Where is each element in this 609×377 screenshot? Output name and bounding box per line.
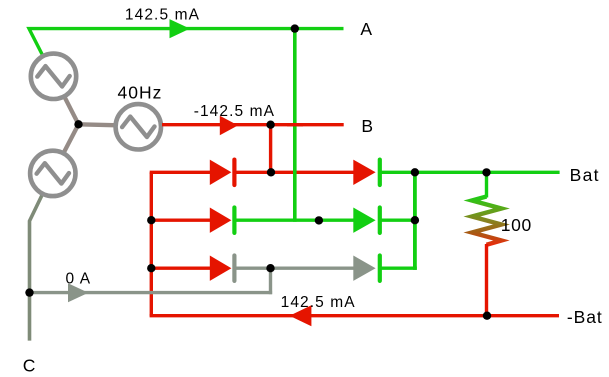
wire row1 anode segment (red) xyxy=(150,171,211,174)
svg-text:142.5 mA: 142.5 mA xyxy=(281,294,356,311)
junction left bus row2 xyxy=(147,216,155,224)
diode D6 right row3 (sage triangle, green bar) xyxy=(353,256,375,281)
diode D1 left row1 (red triangle, red bar) xyxy=(210,160,232,185)
wire row3 anode segment (red) xyxy=(151,267,210,270)
junction neutral of wye xyxy=(74,120,82,128)
ac source V2 (phase B, 40Hz) xyxy=(116,104,161,149)
svg-text:B: B xyxy=(361,116,373,136)
svg-text:-142.5 mA: -142.5 mA xyxy=(194,103,275,120)
current arrow phase A 142.5 mA (green) xyxy=(170,19,190,38)
wire row3 branch vertical to phase C bus (sage) xyxy=(269,268,272,294)
wire row3 mid segment (sage) xyxy=(234,267,353,270)
wire B branch vertical (red) xyxy=(269,125,272,173)
diode D3 left row3 (red triangle, sage bar) xyxy=(210,256,232,281)
wire row2 cathode to + bus (green) xyxy=(380,218,417,221)
junction left bus row3 xyxy=(147,264,155,272)
ac source V3 (phase C) xyxy=(30,151,75,196)
wire + bus vertical (green) xyxy=(413,172,417,270)
wire phase B (red) from V2 to node B xyxy=(162,123,344,126)
wire source V3 lead to node C + C vertical wire (sage) xyxy=(30,191,45,341)
ac source V1 (phase A) xyxy=(31,54,76,99)
svg-text:0 A: 0 A xyxy=(66,271,92,288)
wire left negative bus vertical (red) xyxy=(150,172,153,315)
diode D4 right row1 (red triangle, green bar) xyxy=(353,160,375,185)
current arrow return 142.5 mA (red, pointing left) xyxy=(290,305,312,326)
wire row3 cathode to + bus (green) xyxy=(380,267,417,270)
wire row2 anode segment (red) xyxy=(151,218,211,221)
junction row3 mid xyxy=(266,264,274,272)
junction node C branch xyxy=(25,288,33,296)
wire A branch vertical (green) xyxy=(293,29,297,222)
wire phase C horizontal 0A (sage) xyxy=(30,291,273,294)
wire phase B overdraw at crossing (red on top) xyxy=(287,123,303,126)
junction row2 mid xyxy=(315,216,323,224)
junction node A branch xyxy=(291,24,299,32)
svg-text:-Bat: -Bat xyxy=(567,307,603,327)
junction resistor top xyxy=(482,168,490,176)
wire -Bat bottom (red) xyxy=(151,314,559,316)
wire row1 cathode to + bus (green) xyxy=(380,171,560,174)
wire phase A top (green) xyxy=(29,29,344,60)
resistor R1 100 ohm (gradient zigzag) xyxy=(485,172,488,197)
wire source V1 lead to neutral (taupe) xyxy=(62,92,79,124)
svg-text:40Hz: 40Hz xyxy=(118,82,163,102)
junction row1 mid xyxy=(267,168,275,176)
wire row2 mid segment (green) xyxy=(234,218,353,221)
svg-text:C: C xyxy=(23,356,36,376)
wire row1 mid segment (red) xyxy=(234,171,353,174)
wire source V2 lead to neutral (taupe) xyxy=(79,124,119,125)
wire source V3 lead to neutral (taupe) xyxy=(62,124,79,156)
svg-text:142.5 mA: 142.5 mA xyxy=(125,7,200,24)
diode D2 left row2 (red triangle, green bar) xyxy=(210,208,232,233)
svg-text:100: 100 xyxy=(501,215,532,235)
diode D5 right row2 (green triangle, green bar) xyxy=(353,208,375,233)
junction resistor bottom xyxy=(483,312,491,320)
current arrow phase C 0 A (sage) xyxy=(68,283,88,302)
current arrow phase B -142.5 mA (red) xyxy=(220,116,238,135)
svg-text:Bat: Bat xyxy=(570,165,600,185)
junction node B branch xyxy=(266,121,274,129)
junction + bus row1 xyxy=(411,168,419,176)
junction + bus row2 xyxy=(411,216,419,224)
svg-text:A: A xyxy=(360,19,372,39)
